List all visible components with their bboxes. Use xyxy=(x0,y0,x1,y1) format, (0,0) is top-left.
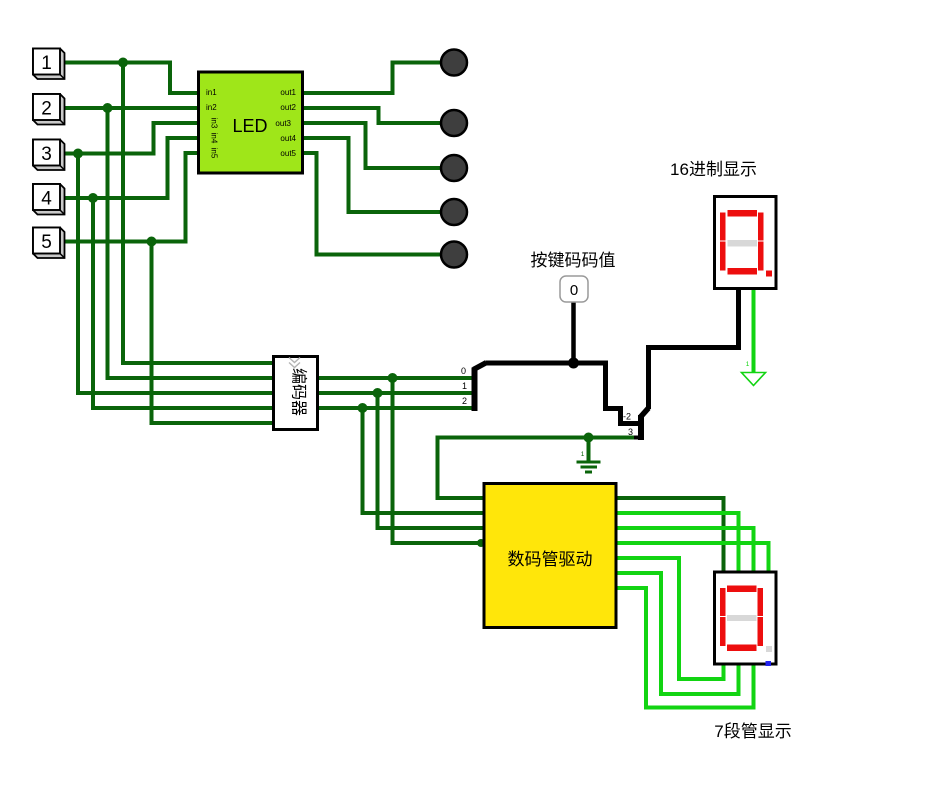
subcircuit encoder box xyxy=(274,357,318,430)
wire driver out1 to 7seg top pin1 xyxy=(617,498,724,572)
green arrow terminal xyxy=(742,373,766,386)
wire ground leg xyxy=(587,438,591,463)
wire ground net to driver in1 xyxy=(438,438,637,499)
junction driver in4 xyxy=(477,539,485,547)
ground symbol xyxy=(577,462,601,472)
wire btn1 to encoder in1 xyxy=(123,63,274,364)
wire LED out3 to lamp3 xyxy=(301,123,441,168)
wire LED out2 to lamp2 xyxy=(301,108,441,123)
splitter SP2 bar xyxy=(638,415,644,440)
junction ground xyxy=(584,433,594,443)
svg-text:1: 1 xyxy=(462,381,467,391)
svg-text:2: 2 xyxy=(462,396,467,406)
subcircuit LED box xyxy=(199,72,303,173)
svg-text:16进制显示: 16进制显示 xyxy=(670,160,757,179)
svg-text:3: 3 xyxy=(41,144,52,165)
svg-text:3: 3 xyxy=(628,427,633,437)
junction row393 xyxy=(373,388,383,398)
svg-text:out4: out4 xyxy=(280,134,296,143)
wire driver out3 to 7seg top pin3 xyxy=(617,528,754,572)
wire btn5 row xyxy=(61,153,199,242)
wire driver out7 to 7seg bottom pin3 xyxy=(617,588,754,708)
svg-text:out2: out2 xyxy=(280,103,296,112)
lamp LED3 xyxy=(441,155,467,181)
bus probe drop xyxy=(571,302,576,363)
svg-text:in5: in5 xyxy=(210,148,219,159)
wire btn3 to encoder in3 xyxy=(78,154,274,394)
bus splitter2 to hex display xyxy=(649,287,739,409)
svg-text:out3: out3 xyxy=(275,119,291,128)
lamp LED1 xyxy=(441,50,467,76)
junction bus-probe xyxy=(568,358,579,369)
wire driver out2 to 7seg top pin2 xyxy=(617,513,739,572)
svg-text:按键码码值: 按键码码值 xyxy=(531,251,616,270)
wire driver out6 to 7seg bottom pin2 xyxy=(617,573,739,694)
svg-text:in1: in1 xyxy=(206,88,217,97)
svg-text:in2: in2 xyxy=(206,103,217,112)
button 3 xyxy=(33,140,65,171)
splitter SP1 diagonal xyxy=(474,363,487,370)
unconnected pin dot xyxy=(766,661,772,666)
wire driver out4 to 7seg top pin4 xyxy=(617,543,769,572)
svg-text:5: 5 xyxy=(41,232,52,253)
junction btn5 xyxy=(147,237,157,247)
button 1 xyxy=(33,49,65,80)
wire btn5 to encoder in5 xyxy=(152,242,275,424)
svg-text:7段管显示: 7段管显示 xyxy=(714,722,791,741)
button 2 xyxy=(33,94,65,125)
svg-text:2: 2 xyxy=(41,99,52,120)
svg-text:LED: LED xyxy=(232,116,267,136)
svg-text:out5: out5 xyxy=(280,149,296,158)
svg-text:编码器: 编码器 xyxy=(290,368,308,416)
lamp LED4 xyxy=(441,199,467,225)
wire LED out5 to lamp5 xyxy=(301,153,441,255)
lamp LED5 xyxy=(441,242,467,268)
junction btn1 xyxy=(118,58,128,68)
wire hex display green pin xyxy=(752,287,756,373)
svg-text:0: 0 xyxy=(570,282,578,299)
splitter SP2 diagonal xyxy=(641,408,649,417)
button 4 xyxy=(33,184,65,215)
wire btn2 row xyxy=(61,106,199,110)
svg-text:in3: in3 xyxy=(210,118,219,129)
junction btn2 xyxy=(103,103,113,113)
wire encoder out1 to splitter leg0 xyxy=(317,376,472,380)
junction row408 xyxy=(358,403,368,413)
splitter SP2 leg3 stub xyxy=(634,436,641,440)
wire encoder out2 to splitter leg1 xyxy=(317,391,472,395)
svg-text:0: 0 xyxy=(461,366,466,376)
svg-text:-2: -2 xyxy=(623,412,631,422)
junction row378 xyxy=(388,373,398,383)
7seg display xyxy=(715,572,777,666)
wire LED out1 to lamp1 xyxy=(301,63,441,94)
wire encoder out3 to splitter leg2 xyxy=(317,406,472,410)
probe value box xyxy=(560,276,588,302)
svg-text:out1: out1 xyxy=(280,88,296,97)
button 5 xyxy=(33,228,65,259)
wire btn3 row xyxy=(61,123,199,154)
splitter SP1 bar xyxy=(472,368,478,412)
svg-text:1: 1 xyxy=(581,451,585,458)
wire branch row408 to driver in2 xyxy=(363,408,484,513)
svg-text:4: 4 xyxy=(41,189,52,210)
junction btn4 xyxy=(88,193,98,203)
wire driver out5 to 7seg bottom pin1 xyxy=(617,558,724,679)
subcircuit driver box xyxy=(484,484,616,628)
wire branch row393 to driver in3 xyxy=(378,393,484,528)
wire btn2 to encoder in2 xyxy=(108,108,275,378)
svg-text:1: 1 xyxy=(41,53,52,74)
junction btn3 xyxy=(73,149,83,159)
svg-text:1: 1 xyxy=(746,361,750,368)
hex display xyxy=(715,197,777,289)
wire btn4 to encoder in4 xyxy=(93,198,274,408)
lamp LED2 xyxy=(441,110,467,136)
svg-text:数码管驱动: 数码管驱动 xyxy=(508,550,593,569)
svg-text:in4: in4 xyxy=(210,133,219,144)
wire btn1 row xyxy=(61,63,199,94)
wire btn4 row xyxy=(61,138,199,198)
bus splitter1 to splitter2 xyxy=(486,363,640,424)
wire LED out4 to lamp4 xyxy=(301,138,441,212)
wire branch row378 to driver in4 xyxy=(393,378,484,543)
